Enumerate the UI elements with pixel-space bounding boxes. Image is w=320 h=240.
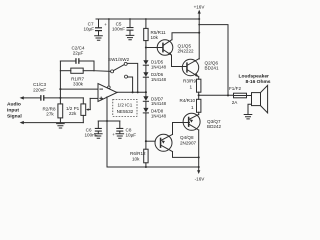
junction C5 on rail	[129, 18, 131, 20]
svg-text:R5/R11: R5/R11	[151, 30, 167, 35]
transistor Q2 (BD241 NPN)	[182, 59, 199, 80]
svg-text:1: 1	[191, 105, 194, 110]
wire: inverting input	[60, 88, 98, 90]
diode D2/D6 1N4148	[143, 72, 148, 92]
diode D4/D8 1N4148	[143, 108, 148, 149]
junction fuse column	[227, 94, 229, 96]
transistor Q4 (2N2907 PNP)	[155, 123, 199, 158]
ground (under C6)	[95, 134, 103, 138]
svg-text:1N4148: 1N4148	[151, 77, 167, 82]
junction V- / decoupling wire	[106, 120, 108, 122]
svg-text:R4/R10: R4/R10	[180, 98, 196, 103]
potentiometer 1/2 P1 22k	[81, 98, 90, 123]
junction rail / -16V stem	[198, 166, 200, 168]
junction upper contact wire	[137, 91, 139, 93]
ground (under R2, on return line)	[57, 124, 65, 128]
junction lower contact wire	[132, 91, 134, 93]
label Audio Input Signal	[7, 102, 22, 120]
junction op-amp output / bias column	[145, 91, 147, 93]
wire: feedback to switch pole	[94, 70, 111, 73]
wire: Q1 base wire	[146, 47, 163, 49]
fuse F1/F2 2A	[234, 93, 252, 98]
svg-text:F1/F2: F1/F2	[229, 86, 241, 91]
diode D3/D7 1N4148	[143, 92, 148, 108]
capacitor C2/C4 22uF (feedback)	[60, 58, 94, 64]
svg-text:Q1/Q5: Q1/Q5	[178, 43, 192, 48]
junction R6 on rail	[145, 166, 147, 168]
wire: C6/C8 decoupling wire	[98, 120, 120, 122]
resistor R6/R12	[144, 149, 148, 163]
junction Q4 base / bias column	[145, 140, 147, 142]
svg-text:BD241: BD241	[205, 66, 219, 71]
ground (under C5)	[126, 35, 134, 39]
junction feedback / inverting input	[59, 88, 61, 90]
wire: op-amp V+ line	[108, 19, 110, 86]
svg-text:1: 1	[190, 85, 193, 90]
wire: feedback ground leg	[59, 71, 61, 104]
input arrow (signal)	[20, 96, 24, 99]
ground (under loudspeaker)	[244, 115, 252, 119]
svg-text:22µF: 22µF	[73, 51, 84, 56]
svg-text:2N2907: 2N2907	[180, 141, 197, 146]
svg-text:Q2/Q6: Q2/Q6	[205, 60, 219, 65]
input arrow (return)	[20, 121, 24, 124]
switch SW1/SW2	[111, 62, 128, 78]
junction Q1 base / bias column	[145, 46, 147, 48]
svg-text:100nF: 100nF	[112, 27, 125, 32]
svg-text:1N4148: 1N4148	[151, 101, 167, 106]
svg-text:8-16 Ohms: 8-16 Ohms	[246, 79, 271, 85]
svg-text:-16V: -16V	[195, 176, 206, 181]
wire: op-amp output	[117, 91, 146, 93]
svg-text:1N4148: 1N4148	[151, 113, 167, 118]
wire: switch lower contact to output	[128, 77, 133, 92]
junction stem branch	[198, 24, 200, 26]
capacitor C5 100nF	[127, 19, 134, 35]
svg-text:R6/R12: R6/R12	[130, 151, 146, 156]
junction top rail / stem	[198, 18, 200, 20]
junction R5 on rail	[145, 18, 147, 20]
svg-text:22k: 22k	[69, 111, 77, 116]
ground (under C7)	[95, 36, 103, 40]
svg-text:Signal: Signal	[7, 114, 22, 120]
resistor R1/R7 330k (feedback)	[60, 61, 94, 73]
wire: +16V top supply rail	[96, 18, 199, 20]
capacitor C1/C3 220nF	[40, 95, 83, 101]
svg-text:10µF: 10µF	[83, 27, 94, 32]
svg-text:BD242: BD242	[207, 124, 221, 129]
pin circle op-amp V+	[108, 86, 111, 89]
power +16V arrow	[198, 10, 201, 14]
svg-text:NE5532: NE5532	[117, 109, 134, 114]
junction stem Q1 branch	[198, 32, 200, 34]
svg-text:27k: 27k	[46, 112, 54, 117]
wire: Q4 base wire	[146, 140, 155, 142]
capacitor C8 10uF	[112, 121, 123, 137]
svg-text:2N2222: 2N2222	[178, 49, 195, 54]
svg-text:SW1/SW2: SW1/SW2	[108, 57, 130, 62]
svg-text:Q3/Q7: Q3/Q7	[207, 119, 221, 124]
junction input line crossing	[59, 97, 61, 99]
wire: output node to fuse	[199, 94, 234, 96]
svg-text:220nF: 220nF	[33, 87, 46, 92]
resistor R2/R8 27k	[58, 104, 63, 123]
svg-text:Input: Input	[7, 108, 19, 114]
resistor R5/R11	[144, 19, 148, 60]
wire: branch to Q1 collector	[172, 33, 199, 40]
wire: -16V bottom rail	[107, 166, 199, 168]
svg-text:Loudspeaker: Loudspeaker	[239, 74, 270, 80]
op-amp U1 (1/2 NE5532)	[98, 84, 117, 102]
wire: branch to fuse column	[199, 25, 228, 96]
wire: Q1 emitter to Q2 base	[172, 66, 187, 68]
transistor Q3 (BD242 PNP)	[183, 113, 200, 171]
svg-text:330k: 330k	[73, 82, 84, 87]
diode D1/D5 1N4148	[143, 60, 148, 72]
svg-text:10k: 10k	[132, 156, 140, 161]
label 1/2 IC1 NE5532 (dashed box)	[113, 99, 137, 116]
wire: audio input line	[23, 97, 40, 99]
capacitor C6 100nF	[95, 121, 102, 134]
junction Q4 collector / -16V stem	[198, 156, 200, 158]
resistor R4/R10	[197, 99, 201, 112]
svg-text:+16V: +16V	[194, 5, 206, 10]
capacitor C7 10uF	[95, 19, 107, 36]
node: +16V stem	[198, 12, 200, 60]
svg-text:10µF: 10µF	[126, 133, 137, 138]
svg-text:10k: 10k	[151, 35, 159, 40]
wire: non-inverting input	[90, 97, 98, 99]
svg-text:Q4/Q8: Q4/Q8	[180, 135, 194, 140]
resistor R3/R9	[197, 79, 201, 92]
svg-text:1/2 IC1: 1/2 IC1	[117, 103, 132, 108]
svg-text:R3/R9: R3/R9	[183, 79, 196, 84]
svg-text:Audio: Audio	[7, 102, 21, 108]
wire: switch upper contact to output	[127, 63, 138, 92]
transistor Q1 (2N2222 NPN)	[157, 40, 173, 67]
svg-text:1N4148: 1N4148	[151, 64, 167, 69]
power -16V arrow	[197, 170, 200, 174]
junction V+ on rail	[108, 18, 110, 20]
loudspeaker	[248, 85, 268, 114]
svg-text:2A: 2A	[232, 100, 239, 105]
wire: op-amp V- line	[106, 97, 108, 167]
junction output node	[198, 94, 200, 96]
ground (under C8)	[116, 134, 124, 138]
wire: input ground return	[23, 122, 83, 124]
